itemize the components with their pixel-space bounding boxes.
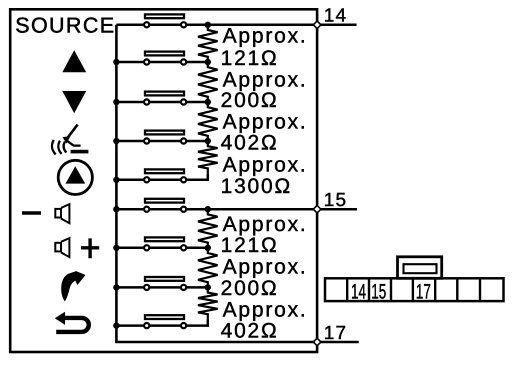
svg-text:15: 15 (324, 190, 347, 211)
svg-text:14: 14 (351, 280, 366, 303)
svg-text:Approx.: Approx. (223, 298, 308, 321)
svg-text:402Ω: 402Ω (221, 320, 279, 343)
svg-text:Approx.: Approx. (223, 153, 308, 176)
svg-text:17: 17 (324, 323, 347, 344)
svg-text:121Ω: 121Ω (221, 234, 279, 257)
svg-text:1300Ω: 1300Ω (221, 175, 292, 198)
svg-text:14: 14 (324, 6, 347, 27)
svg-text:402Ω: 402Ω (221, 132, 279, 155)
svg-text:121Ω: 121Ω (221, 47, 279, 70)
svg-text:Approx.: Approx. (223, 110, 308, 133)
svg-text:17: 17 (416, 280, 431, 303)
svg-text:15: 15 (371, 280, 386, 303)
svg-text:Approx.: Approx. (223, 68, 308, 91)
svg-text:Approx.: Approx. (223, 213, 308, 236)
svg-text:SOURCE: SOURCE (15, 13, 115, 37)
svg-text:200Ω: 200Ω (221, 277, 279, 300)
svg-text:Approx.: Approx. (223, 25, 308, 48)
svg-text:Approx.: Approx. (223, 256, 308, 279)
svg-text:200Ω: 200Ω (221, 89, 279, 112)
